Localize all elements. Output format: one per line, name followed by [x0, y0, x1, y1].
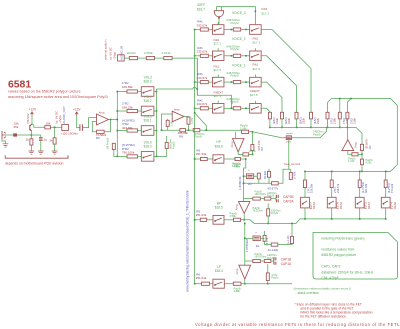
- svg-text:for the FET diffusion resistan: for the FET diffusion resistance.: [300, 314, 347, 318]
- wire bus-resistor: [117, 130, 127, 132]
- capacitor CAP2B: [276, 195, 278, 198]
- svg-text:C64: 470pF: C64: 470pF: [321, 276, 338, 280]
- resistor 233.67k row 3: [200, 107, 208, 110]
- svg-text:www.hobby.blazing.net/schemati: www.hobby.blazing.net/schematics/docs/cl…: [186, 190, 190, 292]
- svg-text:R2: R2: [260, 147, 264, 151]
- svg-text:4.88k: 4.88k: [234, 289, 241, 293]
- wire filter input bus: [270, 126, 356, 128]
- svg-text:1k: 1k: [49, 138, 53, 142]
- wire switch-outbus: [154, 91, 157, 93]
- svg-text:233k: 233k: [302, 118, 306, 124]
- svg-text:1kOhm: 1kOhm: [127, 51, 137, 55]
- resistor vertical PolySi right of opamp2: [267, 209, 270, 216]
- wire 1u to ground: [40, 141, 42, 151]
- wire to mixer diag node: [200, 129, 207, 131]
- svg-text:PolySi: PolySi: [231, 100, 240, 104]
- svg-text:datasheet: 2200pF for 30Hz, 12: datasheet: 2200pF for 30Hz, 12kHz: [321, 270, 373, 274]
- wire: [224, 158, 235, 160]
- wire output node right: [249, 153, 253, 155]
- resistor PolySi BP: [233, 218, 240, 221]
- wire op-amp4 out to LP bus: [244, 279, 246, 284]
- svg-text:216k: 216k: [333, 118, 337, 124]
- wire to port: [50, 126, 61, 128]
- audio jack: [2, 131, 6, 139]
- svg-text:233.67k: 233.67k: [197, 23, 208, 27]
- wire to resonance bus: [361, 165, 363, 172]
- wire jack to resistor: [6, 134, 14, 136]
- svg-text:RES0: RES0: [393, 201, 397, 209]
- svg-text:CAP1B: CAP1B: [281, 258, 291, 262]
- switch control stub: [217, 101, 219, 104]
- wire: [224, 219, 233, 221]
- svg-text:Voltage divider at variable re: Voltage divider at variable resistance F…: [195, 322, 400, 327]
- wire switch to bottom bus: [385, 208, 387, 219]
- svg-text:17.87k: 17.87k: [292, 171, 296, 180]
- svg-text:1.5k: 1.5k: [170, 121, 173, 126]
- svg-text:118.28k: 118.28k: [309, 183, 313, 193]
- resistor 42.140k: [271, 243, 278, 246]
- resistor 970.22k: [384, 180, 387, 188]
- wire: [224, 283, 233, 285]
- switch box BP: [213, 215, 224, 224]
- wire FET3: [245, 237, 253, 239]
- summing resistor 7: [346, 112, 349, 119]
- svg-text:PolySi: PolySi: [271, 212, 279, 215]
- resistor 74.582k R9: [97, 130, 105, 133]
- wire to caps split: [271, 196, 276, 198]
- svg-text:78.2Ohm: 78.2Ohm: [253, 210, 263, 213]
- wire PolySi to filter switch: [241, 81, 250, 83]
- wire: [207, 219, 213, 221]
- wire volume bus to AUDIO_IN net (crossover hop over mixer bus): [157, 88, 193, 90]
- wire drop to summing resistor 7: [347, 99, 351, 113]
- wire output mixer bus vertical: [194, 30, 196, 284]
- wire volume out bus: [156, 89, 158, 156]
- switch control stub: [217, 48, 219, 51]
- svg-text:233.67k: 233.67k: [197, 50, 208, 54]
- svg-text:$17.0: $17.0: [214, 68, 222, 72]
- wire resistor-switch: [208, 107, 213, 109]
- wire bus to 38.867k feedback: [356, 127, 362, 144]
- svg-text:233.67k: 233.67k: [197, 102, 208, 106]
- svg-text:closest: closest: [286, 132, 293, 135]
- wire resistor to switch: [359, 188, 361, 198]
- wire switch-outbus: [154, 130, 157, 132]
- note box: [313, 233, 398, 280]
- wire filter switch output row 0 diagonal to summing resistor: [261, 30, 311, 113]
- resonance column RES2: wire top: [331, 171, 333, 180]
- wire seg: [138, 57, 147, 59]
- resistor vertical PolySi LP: [266, 273, 269, 281]
- wire feedback down: [188, 124, 190, 130]
- switch box RES3: [301, 197, 310, 208]
- resistor 100.83k: [127, 90, 138, 93]
- svg-text:Ru: Ru: [256, 244, 260, 248]
- svg-text:$18.2: $18.2: [144, 99, 152, 103]
- wire output: [109, 119, 118, 121]
- svg-text:$18.0: $18.0: [144, 144, 152, 148]
- wire resonance top bus: [305, 170, 391, 172]
- wire FET to filter bus: [291, 127, 326, 137]
- resistor 189.23k: [127, 109, 138, 112]
- wire resistor-switch: [138, 155, 142, 157]
- resistor 648.5Ohm PolySi: [233, 54, 240, 57]
- svg-text:100.83k: 100.83k: [122, 85, 133, 89]
- resistor 233.67k row 2: [200, 81, 208, 84]
- wire resistor 17.87k stub: [290, 169, 292, 172]
- wire op-amp2 top connection: [244, 198, 253, 200]
- op-amp U5 output buffer (apex right): [172, 111, 184, 122]
- resistor vertical 40.17k: [263, 235, 266, 241]
- wire r1-r2: [260, 198, 264, 200]
- wire FET2 wiring: [244, 175, 247, 177]
- wire +12V to collector: [31, 116, 33, 124]
- svg-text:AUDIO_OUT: AUDIO_OUT: [62, 106, 66, 124]
- svg-text:R8: R8: [179, 134, 183, 138]
- svg-text:assuming 18k/square active are: assuming 18k/square active area and 100O…: [8, 95, 108, 99]
- svg-text:PolySi: PolySi: [195, 134, 203, 138]
- resistor 1M PolySi termination: [112, 143, 115, 149]
- resistor feedback vertical: [187, 117, 190, 124]
- svg-text:freq_control: freq_control: [284, 162, 300, 166]
- svg-text:481.18k: 481.18k: [364, 183, 368, 193]
- svg-text:$18.3: $18.3: [144, 80, 152, 84]
- svg-text:$18.4: $18.4: [215, 269, 223, 273]
- svg-text:PolySi: PolySi: [171, 141, 175, 149]
- svg-text:RES3: RES3: [312, 201, 316, 209]
- wire LP row: [195, 283, 202, 285]
- resistor 648.5Ohm PolySi: [233, 107, 240, 110]
- control stub: [254, 48, 256, 51]
- wire resistor to filter input bus: [296, 119, 298, 128]
- wire mixerbus-resistor: [195, 55, 201, 57]
- resistor 481.18k: [358, 180, 361, 188]
- svg-text:+12V: +12V: [29, 108, 37, 112]
- wire resistor to transistor node: [17, 134, 31, 136]
- svg-text:>120.13Ohm: >120.13Ohm: [61, 131, 79, 135]
- svg-text:CAP1, CAP2:: CAP1, CAP2:: [321, 265, 341, 269]
- wire HP row: [195, 158, 201, 160]
- resistor 388.08k R8: [180, 129, 186, 132]
- wire BP bus across: [241, 219, 386, 224]
- resistor 404.87k: [127, 129, 138, 132]
- wire resistor-switch: [208, 55, 213, 57]
- wire resistor to filter input bus: [281, 119, 283, 128]
- wire resistor-switch: [208, 81, 213, 83]
- switch control stub: [217, 22, 219, 25]
- wire to PolySi resistor: [224, 107, 233, 109]
- wire PolySi to filter switch: [241, 107, 250, 109]
- svg-text:CAP2A: CAP2A: [283, 200, 294, 204]
- svg-text:1.07802M: 1.07802M: [245, 239, 249, 253]
- wire mixer to op-amp1 input: [206, 129, 241, 131]
- wire feedback loop: [104, 120, 110, 132]
- svg-text:$17.1: $17.1: [214, 42, 222, 46]
- ground 3: [52, 151, 58, 154]
- resistor 790.100k: [127, 155, 138, 158]
- svg-text:3OFF: 3OFF: [197, 3, 205, 7]
- svg-text:Amp: Amp: [235, 268, 239, 274]
- svg-text:Ru: Ru: [248, 182, 252, 186]
- resistor 236.57k: [330, 180, 333, 188]
- svg-text:Amp: Amp: [174, 108, 180, 112]
- wire mixerbus-resistor: [195, 107, 201, 109]
- wire switch to bottom bus: [359, 208, 361, 219]
- ground jack: [3, 144, 9, 147]
- wire 1k to ground: [30, 135, 32, 139]
- wire filter switch output row 1 diagonal to summing resistor: [261, 56, 296, 113]
- summing resistor 3: [295, 112, 298, 119]
- svg-text:25k: 25k: [14, 125, 19, 129]
- svg-text:1.06k: 1.06k: [240, 126, 247, 130]
- switch box filter-select row 3: [250, 104, 262, 114]
- switch box bypass row 3: [212, 104, 224, 114]
- summing resistor 1: [268, 112, 271, 119]
- op-amp U4 (apex up): [342, 140, 354, 151]
- wire resistor-switch: [138, 91, 142, 93]
- resistor 118.28k: [304, 180, 307, 188]
- capacitor CAP1B: [274, 257, 276, 260]
- wire: [209, 283, 212, 285]
- svg-text:1.37k: 1.37k: [191, 117, 194, 124]
- svg-text:including PolySi trans (green): including PolySi trans (green): [321, 237, 364, 241]
- wire bus-resistor: [117, 155, 127, 157]
- wire resistor to filter input bus: [327, 119, 329, 128]
- wire switch-outbus: [154, 155, 157, 157]
- svg-text:233k: 233k: [316, 118, 320, 124]
- resonance column RES1: wire top: [359, 171, 361, 180]
- summing resistor 5: [326, 112, 329, 119]
- wire bus-resistor: [117, 110, 127, 112]
- wire integrator2 input vertical: [244, 223, 246, 265]
- wire switch to bottom bus: [304, 208, 306, 219]
- svg-text:...stack overflow: ...stack overflow: [295, 291, 319, 295]
- svg-text:PolySi: PolySi: [313, 132, 321, 136]
- wire 40.62k stubs: [268, 169, 270, 172]
- wire mixerbus-resistor: [195, 29, 201, 31]
- wire res v1: [167, 119, 169, 121]
- resonance column RES3: wire top: [304, 171, 306, 180]
- resistor PolySi 4.02k vertical: [361, 159, 364, 165]
- svg-text:R9: R9: [96, 136, 100, 140]
- wire to res DAC: [358, 153, 362, 155]
- switch box RES2: [327, 197, 336, 208]
- svg-text:CAP1A: CAP1A: [281, 262, 292, 266]
- resistor 251.54k LP: [202, 282, 210, 285]
- wire switch-outbus: [154, 110, 157, 112]
- wire op-amp4 top connection: [245, 260, 253, 262]
- svg-text:4.221k: 4.221k: [161, 51, 171, 55]
- switch box VOL1: [141, 126, 154, 136]
- svg-text:970.22k: 970.22k: [390, 183, 394, 193]
- svg-text:VOICE_3: VOICE_3: [232, 11, 246, 15]
- switch box filter-select row 0: [250, 25, 262, 35]
- resistor PolySi HP: [235, 157, 240, 160]
- svg-text:values based on the 6581R2 pol: values based on the 6581R2 polygon pictu…: [8, 90, 81, 94]
- svg-text:PolySi: PolySi: [271, 277, 279, 280]
- resistor 233.67k row 1: [200, 54, 208, 57]
- resistor 17.87k: [289, 172, 292, 179]
- wire filter switch output row 3 diagonal to summing resistor: [261, 108, 270, 112]
- summing resistor 4: [310, 112, 313, 119]
- wire to PolySi resistor: [224, 81, 233, 83]
- op-amp U2 integrator1 (apex down): [239, 202, 251, 214]
- wire stub: [166, 136, 168, 142]
- capacitor CAP2A: [276, 199, 278, 202]
- wire PolySi to filter switch: [241, 29, 250, 31]
- resistor PolySi feedback lower: [243, 153, 249, 156]
- svg-text:$18.7: $18.7: [197, 7, 205, 11]
- switch box HP: [213, 155, 224, 163]
- wire mixerbus-resistor: [195, 81, 201, 83]
- wire apex to feedback resistor: [238, 152, 243, 154]
- wire emitter to node: [30, 131, 32, 135]
- resistor vertical below input: [166, 120, 169, 126]
- svg-text:43.977k: 43.977k: [267, 186, 278, 190]
- wire to right resistor: [278, 243, 292, 246]
- wire up to freq net: [278, 169, 291, 183]
- svg-text:$17.2: $17.2: [262, 11, 270, 15]
- capacitor CAP1A: [274, 262, 276, 265]
- resistor PolySi s2: [264, 260, 271, 263]
- resistor 10k output: [45, 126, 51, 129]
- wire filter bus to op-amp3: [346, 127, 348, 139]
- switch box LP: [213, 279, 224, 288]
- svg-text:4.02k: 4.02k: [365, 161, 372, 164]
- wire LP bus right: [241, 283, 292, 285]
- resistor filled (depends on revision): [13, 133, 17, 136]
- resistor 470Ohm PolySi: [193, 129, 200, 132]
- resistor PolySi r1: [253, 197, 260, 200]
- svg-text:Amp: Amp: [354, 142, 358, 148]
- svg-text:$17.5: $17.5: [250, 93, 258, 97]
- wire drop to summing resistor 5: [328, 99, 332, 113]
- switch box bypass row 2: [212, 77, 224, 87]
- svg-text:$18.1: $18.1: [144, 119, 152, 123]
- control stub: [254, 101, 256, 104]
- wire integrator1 input vertical: [243, 168, 245, 202]
- svg-text:PN2222: PN2222: [26, 113, 30, 124]
- svg-text:PolySi: PolySi: [231, 47, 240, 51]
- resonance column RES0: wire top: [385, 171, 387, 180]
- wire 42.140k row: [260, 237, 264, 239]
- resistor vertical right: [291, 236, 294, 243]
- svg-text:233.67k: 233.67k: [197, 76, 208, 80]
- svg-text:depends on motherboard PCB rev: depends on motherboard PCB revision: [5, 162, 64, 166]
- wire feedback to output node: [251, 151, 253, 155]
- svg-text:Amp: Amp: [230, 141, 234, 147]
- summing resistor 6: [338, 112, 341, 119]
- svg-text:233k: 233k: [287, 118, 291, 124]
- control stub: [254, 75, 256, 78]
- svg-text:PolySi: PolySi: [267, 194, 275, 197]
- svg-text:$17.1: $17.1: [253, 41, 261, 45]
- wire termination: [114, 150, 118, 157]
- svg-text:Amp: Amp: [235, 204, 239, 210]
- svg-text:Amp: Amp: [99, 110, 105, 114]
- wire resistor-switch: [208, 29, 213, 31]
- wire cap bottom to bus: [267, 203, 269, 209]
- resistor vertical series: [257, 173, 260, 179]
- resistor PolySi LP row: [233, 282, 241, 285]
- svg-text:VOICE_1: VOICE_1: [232, 64, 246, 68]
- svg-text:790.100k: 790.100k: [122, 151, 135, 155]
- wire jack ground: [2, 139, 6, 144]
- wire FET gate to freq_control: [288, 140, 290, 170]
- wire s1-s2: [260, 260, 264, 262]
- wire right resistor to bus: [291, 223, 293, 236]
- resistor 251.54k HP: [201, 157, 208, 160]
- wire +12V2 down: [77, 116, 80, 128]
- switch box VOL2: [141, 106, 154, 116]
- wire op-amp2 out to BP bus: [243, 213, 245, 219]
- svg-text:AUDIO_IN: AUDIO_IN: [120, 46, 124, 60]
- resistor PolySi output: [352, 153, 358, 156]
- wire cap to amp input: [82, 118, 96, 128]
- wire BP row: [195, 219, 201, 221]
- wire resistor to filter input bus: [269, 119, 271, 128]
- resistor 251.54k BP: [200, 218, 206, 221]
- wire gate output to bypass switch: [218, 19, 220, 25]
- wire PolySi to filter switch: [241, 55, 250, 57]
- wire control net to filter switch row0: [216, 7, 255, 25]
- switch box RES1: [355, 197, 364, 208]
- op-amp U6 (apex right): [97, 114, 109, 125]
- svg-text:6581R2 polygon picture: 6581R2 polygon picture: [321, 253, 356, 257]
- wire to PolySi resistor: [224, 29, 233, 31]
- switch box bypass row 1: [212, 51, 224, 61]
- wire resistor to filter input bus: [310, 119, 312, 128]
- op-amp U1 (apex down): [233, 139, 245, 153]
- wire: [186, 129, 194, 131]
- svg-text:190.5Ohm: 190.5Ohm: [255, 193, 267, 196]
- svg-text:2.59k: 2.59k: [230, 214, 237, 218]
- svg-text:RES2: RES2: [339, 201, 343, 209]
- svg-text:PolySi: PolySi: [231, 21, 240, 25]
- wire AUDIO_IN to EXT node: [172, 58, 231, 108]
- wire volume ladder bus: [116, 92, 118, 157]
- bracket depends-on: [5, 155, 68, 158]
- svg-text:RES1: RES1: [367, 201, 371, 209]
- wire HP to op-amp1 output: [240, 158, 245, 160]
- resistor 233.67k row 0: [200, 28, 208, 31]
- op-amp U3 integrator2 (apex down): [239, 265, 251, 279]
- wire mixer bus branch diagonal to amp: [195, 113, 207, 131]
- svg-text:+12V: +12V: [73, 108, 81, 112]
- wire resistor-switch: [138, 110, 142, 112]
- switch box RES0: [381, 197, 390, 208]
- svg-text:$18.6: $18.6: [215, 144, 223, 148]
- wire resistor to switch: [385, 188, 387, 198]
- resistor 43.977k: [272, 182, 279, 185]
- wire collector branch to output: [34, 126, 45, 128]
- resistor PolySi s1: [253, 260, 260, 263]
- svg-text:216k: 216k: [353, 118, 357, 124]
- op-amp1 input stub: [235, 132, 237, 139]
- resistor right of VOL0: [165, 142, 168, 148]
- svg-text:236.57k: 236.57k: [336, 183, 340, 193]
- svg-text:1M PolySi: 1M PolySi: [105, 137, 109, 149]
- wire feedback to input: [92, 122, 96, 132]
- svg-text:1u: 1u: [43, 138, 47, 142]
- wire gate inputs: [215, 7, 217, 11]
- wire op-amp1 out diagonal to FET: [252, 132, 286, 138]
- svg-text:2.659k: 2.659k: [144, 51, 154, 55]
- resistor 38.867k: [361, 144, 364, 150]
- ground 1: [29, 151, 35, 154]
- resistor 648.5Ohm PolySi: [233, 28, 240, 31]
- svg-text:R2: R2: [368, 145, 372, 149]
